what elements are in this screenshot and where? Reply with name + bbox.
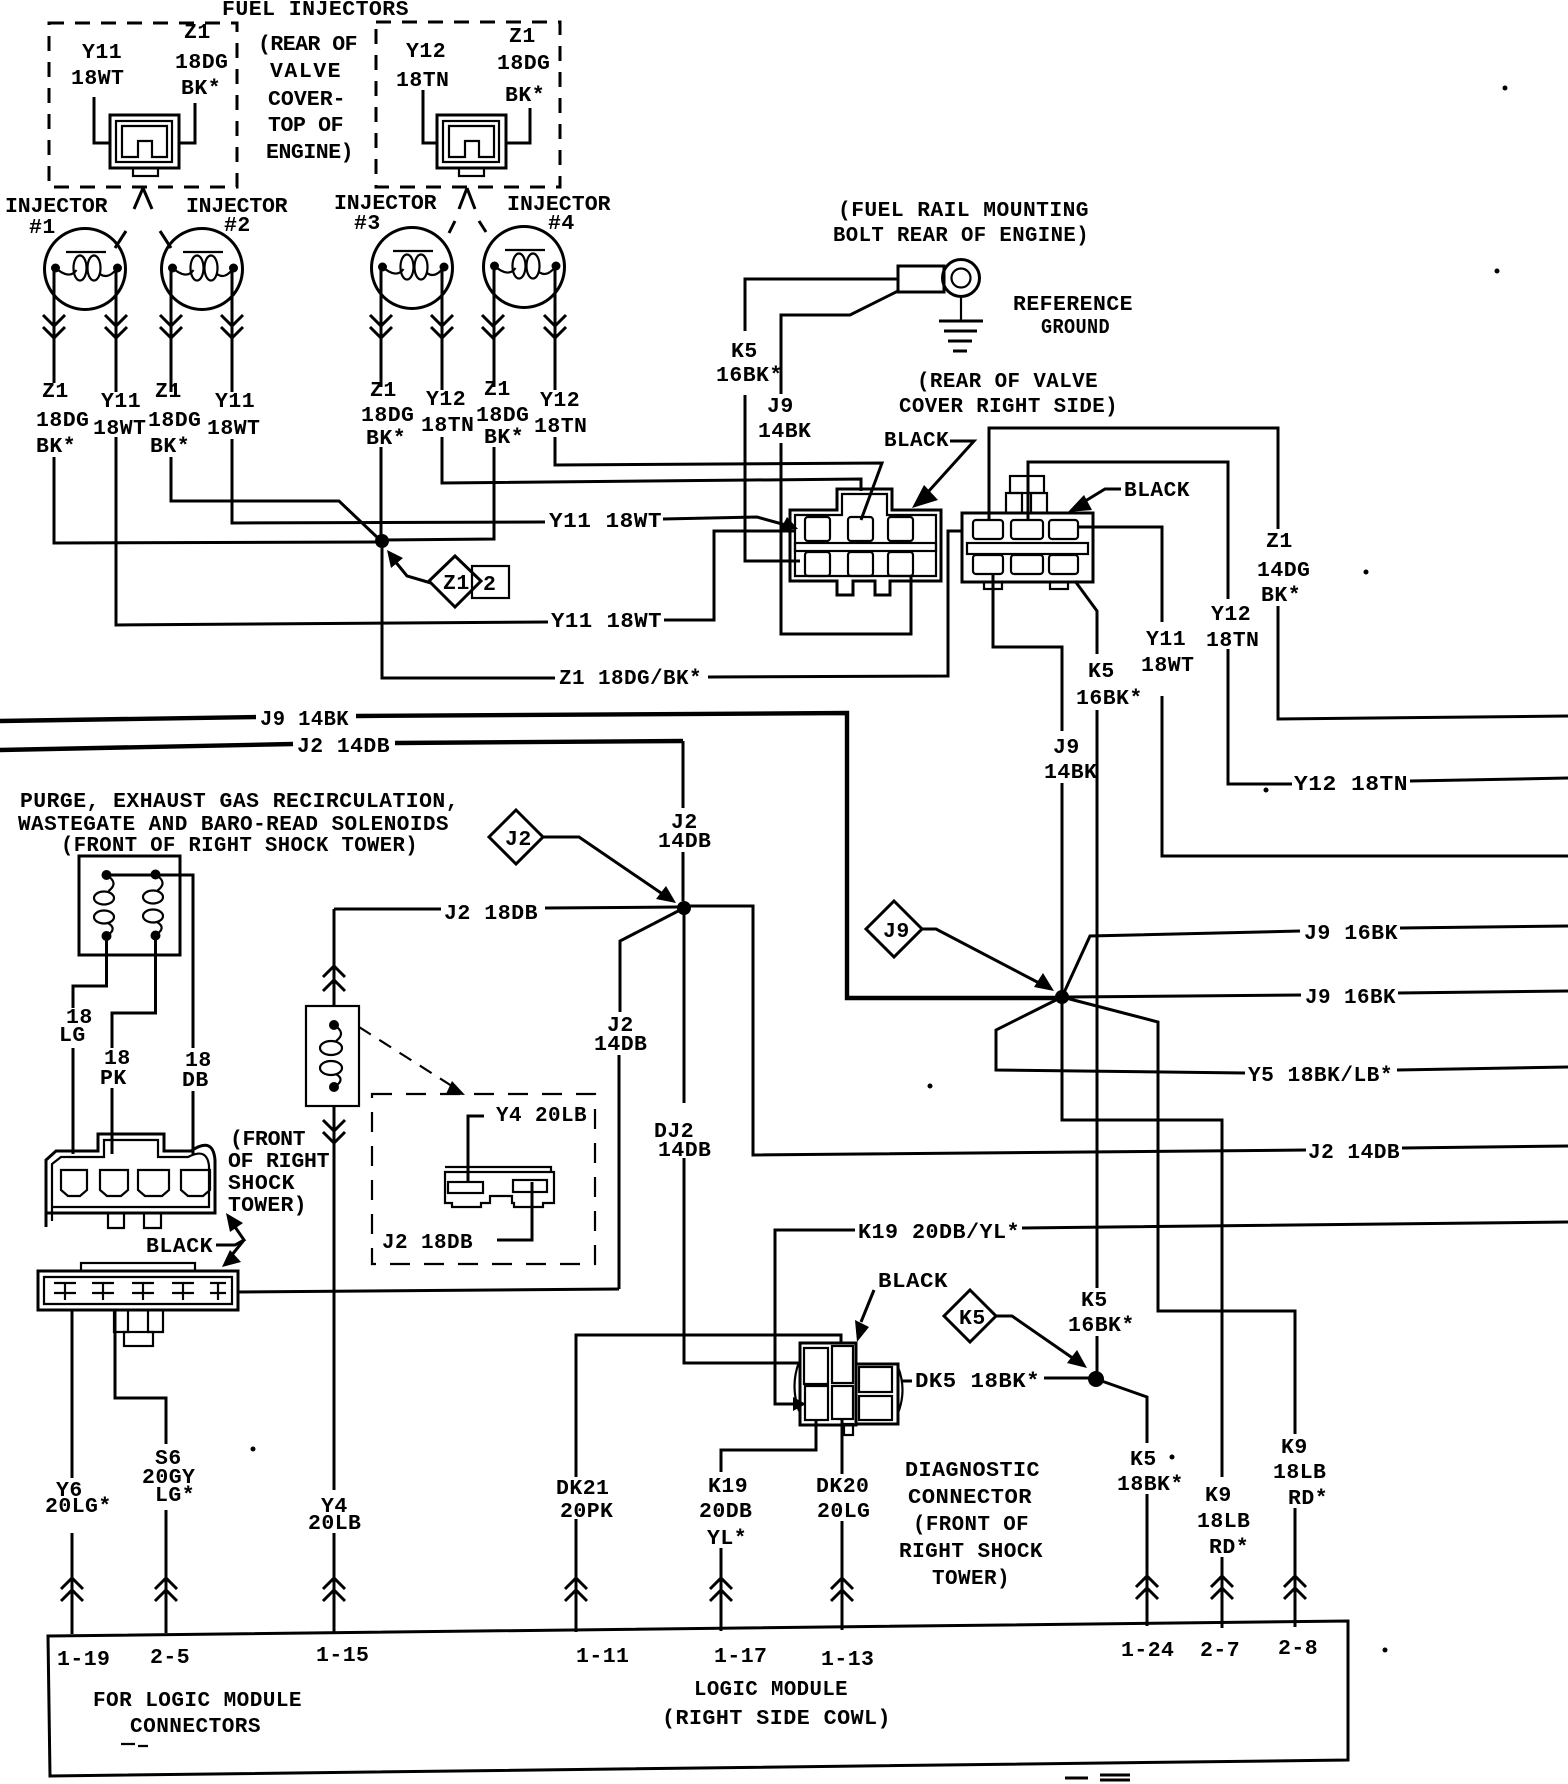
svg-text:20PK: 20PK: [560, 1500, 613, 1524]
wire 18 PK: [112, 936, 156, 1155]
chevron marks on injector wires: [43, 315, 566, 338]
svg-text:TOWER): TOWER): [932, 1567, 1010, 1591]
connector 4-cavity solenoid (front of right shock tower): [46, 1134, 215, 1228]
svg-text:DK20: DK20: [816, 1475, 869, 1499]
wire Z1 injector 2: [171, 268, 380, 540]
svg-text:CONNECTOR: CONNECTOR: [908, 1486, 1032, 1510]
wire J2 18DB from Y4 branch to J2 junction: [334, 907, 678, 909]
svg-text:18WT: 18WT: [71, 67, 124, 91]
svg-text:LOGIC MODULE: LOGIC MODULE: [694, 1678, 848, 1702]
svg-text:14DB: 14DB: [594, 1033, 647, 1057]
wire J9 14BK from right connector to J9 junction: [993, 574, 1062, 997]
svg-text:18DG: 18DG: [361, 404, 414, 428]
svg-text:14DB: 14DB: [658, 1139, 711, 1163]
wire Y6 20LG* to module 1-19: [71, 1310, 74, 1634]
svg-text:J2 14DB: J2 14DB: [1308, 1141, 1400, 1165]
node Z1 splice junction: [375, 534, 389, 548]
svg-text:DK5 18BK*: DK5 18BK*: [915, 1370, 1040, 1394]
svg-text:16BK*: 16BK*: [1068, 1314, 1135, 1338]
svg-text:BK*: BK*: [366, 427, 406, 451]
svg-text:18DG: 18DG: [148, 409, 201, 433]
svg-text:1-24: 1-24: [1121, 1639, 1174, 1663]
wire K19 20DB/YL* line: [775, 1222, 1568, 1404]
svg-text:Z1: Z1: [484, 378, 511, 402]
svg-text:14BK: 14BK: [758, 420, 811, 444]
svg-text:BOLT REAR OF ENGINE): BOLT REAR OF ENGINE): [833, 224, 1089, 248]
svg-text:18DG: 18DG: [497, 52, 550, 76]
svg-text:(FRONT OF: (FRONT OF: [913, 1513, 1029, 1537]
svg-text:Z1: Z1: [370, 379, 397, 403]
ring terminal at fuel rail bolt: [898, 266, 944, 292]
arrow from Z1 diamond to junction: [394, 560, 431, 583]
svg-text:Y12: Y12: [406, 40, 446, 64]
svg-text:K5: K5: [1130, 1448, 1157, 1472]
svg-text:BLACK: BLACK: [884, 429, 949, 453]
svg-text:2: 2: [483, 573, 496, 597]
svg-text:Y12: Y12: [1211, 603, 1251, 627]
wire Y11 injector 2 (first Y11 18WT): [232, 268, 793, 527]
wire J9 16BK lower from junction to right edge: [1068, 991, 1568, 997]
svg-text:18TN: 18TN: [1206, 629, 1259, 653]
wire K5 16BK* from right connector to K5 junction: [1075, 581, 1097, 1372]
svg-text:PURGE, EXHAUST GAS RECIRCULATI: PURGE, EXHAUST GAS RECIRCULATION,: [20, 790, 459, 814]
wire Z1 injector 1: [54, 268, 378, 543]
svg-text:BLACK: BLACK: [878, 1270, 948, 1294]
wire Y11 18WT from right connector to right edge: [1079, 527, 1568, 856]
svg-text:(RIGHT SIDE COWL): (RIGHT SIDE COWL): [662, 1707, 891, 1731]
svg-text:BK*: BK*: [150, 435, 190, 459]
svg-text:1-17: 1-17: [714, 1645, 767, 1669]
connector symbol top box 1: [110, 115, 179, 168]
svg-text:K5: K5: [731, 340, 758, 364]
svg-text:#4: #4: [548, 212, 575, 236]
svg-text:20LB: 20LB: [308, 1512, 361, 1536]
svg-text:14BK: 14BK: [1044, 761, 1097, 785]
svg-text:BLACK: BLACK: [146, 1235, 213, 1259]
svg-text:FOR LOGIC MODULE: FOR LOGIC MODULE: [93, 1689, 302, 1713]
svg-text:COVER-: COVER-: [268, 88, 346, 112]
svg-text:J9 16BK: J9 16BK: [1304, 922, 1398, 946]
wire Z1 18DG/BK* from junction to right connector: [382, 531, 962, 678]
svg-text:K9: K9: [1205, 1484, 1232, 1508]
svg-text:J9: J9: [767, 395, 794, 419]
svg-text:J2 18DB: J2 18DB: [444, 902, 538, 926]
wire DK21 20PK to module 1-11: [576, 1335, 841, 1632]
arrow from K5 diamond to junction: [996, 1316, 1074, 1359]
svg-text:INJECTOR: INJECTOR: [5, 195, 108, 219]
svg-text:DB: DB: [182, 1069, 209, 1093]
svg-text:REFERENCE: REFERENCE: [1013, 293, 1133, 317]
svg-text:14DG: 14DG: [1257, 559, 1310, 583]
caret legs connector 1 to injectors 1-2: [115, 188, 143, 248]
svg-text:K5: K5: [1081, 1289, 1108, 1313]
svg-text:Z1: Z1: [184, 21, 211, 45]
svg-text:2-7: 2-7: [1200, 1639, 1240, 1663]
svg-text:18TN: 18TN: [534, 415, 587, 439]
svg-text:Y4 20LB: Y4 20LB: [496, 1104, 587, 1128]
svg-text:Y11: Y11: [1146, 628, 1186, 652]
wire Y4 inside detail box: [468, 1116, 484, 1181]
svg-text:Y12: Y12: [426, 388, 466, 412]
arrowhead K19 into diagnostic connector: [793, 1397, 806, 1411]
svg-text:Y12 18TN: Y12 18TN: [1294, 773, 1408, 797]
svg-text:VALVE: VALVE: [270, 60, 341, 84]
svg-text:FUEL INJECTORS: FUEL INJECTORS: [222, 0, 409, 22]
connector black 6-pin right (mating): [962, 476, 1093, 589]
wire J2 14DB from junction to lower connector: [619, 908, 684, 1289]
svg-text:Z1: Z1: [42, 380, 69, 404]
wire Y4 20LB / J2 18DB branch: [333, 909, 336, 1632]
wire J9 16BK upper from junction to right edge: [1062, 926, 1568, 997]
dashed box fuel injector connector 3-4: [376, 22, 560, 187]
svg-text:1-11: 1-11: [576, 1645, 629, 1669]
svg-text:1-13: 1-13: [821, 1648, 874, 1672]
svg-text:Z1: Z1: [155, 380, 182, 404]
chevron down below coil box: [323, 1120, 345, 1143]
svg-text:INJECTOR: INJECTOR: [334, 192, 437, 216]
wire Y5 18BK/LB* from junction area to right edge: [996, 997, 1568, 1073]
svg-text:Y5 18BK/LB*: Y5 18BK/LB*: [1248, 1064, 1393, 1088]
wire K9 18LB RD* to module 2-8: [1062, 997, 1295, 1627]
dashed detail box Y4 connector: [372, 1094, 595, 1264]
svg-text:18WT: 18WT: [207, 417, 260, 441]
wire 18 DB: [156, 875, 194, 1154]
svg-text:ENGINE): ENGINE): [266, 141, 354, 165]
solenoids box with two coils: [79, 856, 180, 955]
injector 3 coil: [372, 228, 453, 309]
svg-text:BK*: BK*: [36, 435, 76, 459]
svg-text:Y11 18WT: Y11 18WT: [551, 610, 662, 634]
wire DK5 18BK* from diagnostic connector to K5 junction: [901, 1378, 1090, 1381]
wire J2 14DB long line: [0, 741, 683, 750]
wire Z1 injector 4: [382, 266, 494, 540]
svg-text:18WT: 18WT: [1141, 654, 1194, 678]
wire Y11 injector 1 (second Y11 18WT): [116, 268, 795, 625]
wire Z1 to connector 2: [506, 108, 530, 143]
svg-text:BK*: BK*: [484, 426, 524, 450]
svg-text:1-15: 1-15: [316, 1644, 369, 1668]
wire J2 18DB inside detail box: [497, 1182, 532, 1240]
splice symbol J2 diamond: [489, 810, 543, 864]
dashed box fuel injector connector 1-2: [49, 23, 237, 187]
wire link coil tops: [107, 874, 156, 877]
svg-text:Z1: Z1: [1266, 530, 1293, 554]
svg-text:#2: #2: [224, 214, 251, 238]
svg-text:TOWER): TOWER): [228, 1194, 307, 1218]
svg-text:16BK*: 16BK*: [716, 364, 783, 388]
wire K5 18BK* from junction to module 1-24: [1096, 1379, 1147, 1626]
splice symbol J9 diamond: [866, 901, 922, 957]
svg-text:18LB: 18LB: [1273, 1461, 1326, 1485]
scan artifacts: [121, 1744, 148, 1746]
svg-text:DK21: DK21: [556, 1477, 609, 1501]
arrowhead Y11 into connector: [780, 517, 798, 530]
svg-text:Y11: Y11: [101, 390, 141, 414]
svg-text:DIAGNOSTIC: DIAGNOSTIC: [905, 1459, 1040, 1483]
svg-text:OF RIGHT: OF RIGHT: [228, 1150, 330, 1174]
svg-text:Y11: Y11: [215, 390, 255, 414]
svg-text:J9 14BK: J9 14BK: [260, 708, 349, 732]
injector 4 coil: [484, 227, 565, 308]
svg-text:BK*: BK*: [505, 84, 545, 108]
svg-text:K5: K5: [1088, 660, 1115, 684]
svg-text:Y12: Y12: [540, 389, 580, 413]
wire from lower connector to J2 14DB vertical: [238, 1289, 619, 1292]
svg-text:CONNECTORS: CONNECTORS: [130, 1715, 261, 1739]
chevrons at logic module entries: [61, 1576, 1306, 1601]
svg-text:Z1 18DG/BK*: Z1 18DG/BK*: [559, 667, 702, 691]
svg-text:BK*: BK*: [181, 77, 221, 101]
dashed arrow from coil box to detail box: [359, 1027, 455, 1088]
svg-text:20DB: 20DB: [699, 1500, 752, 1524]
connector black 6-pin left (rear of valve cover): [790, 489, 941, 595]
svg-text:J2: J2: [505, 828, 532, 852]
svg-text:Z1: Z1: [509, 25, 536, 49]
svg-text:J9: J9: [883, 920, 910, 944]
svg-text:TOP OF: TOP OF: [268, 114, 344, 138]
svg-text:YL*: YL*: [707, 1527, 747, 1551]
wire DJ2 14DB from junction to diagnostic connector: [684, 908, 799, 1363]
svg-text:K19: K19: [708, 1475, 748, 1499]
wire K5 16BK* from bolt to left connector: [745, 279, 898, 561]
wire S6 20GY LG* to module 2-5: [115, 1310, 166, 1633]
svg-text:#3: #3: [354, 212, 381, 236]
svg-text:J9: J9: [1053, 736, 1080, 760]
svg-text:LG: LG: [59, 1024, 86, 1048]
svg-text:GROUND: GROUND: [1041, 316, 1110, 340]
wire J9 14BK from bolt to left connector: [781, 291, 911, 634]
wire J9 14BK long line: [0, 713, 1056, 998]
svg-text:2-8: 2-8: [1278, 1637, 1318, 1661]
svg-text:RD*: RD*: [1209, 1536, 1249, 1560]
wire Y12 injector 3: [442, 267, 861, 491]
ground REFERENCE GROUND: [960, 297, 962, 321]
svg-text:(FUEL RAIL MOUNTING: (FUEL RAIL MOUNTING: [838, 199, 1089, 223]
wire J2 14DB from junction to right edge: [684, 906, 1568, 1155]
wire Y12 injector 4: [555, 266, 882, 520]
svg-text:2-5: 2-5: [150, 1646, 190, 1670]
wire 18 LG: [73, 936, 107, 1154]
svg-text:LG*: LG*: [155, 1484, 195, 1508]
logic module box: [48, 1621, 1348, 1776]
svg-text:SHOCK: SHOCK: [228, 1172, 295, 1196]
wire DK20 20LG to module 1-13: [841, 1419, 844, 1630]
svg-text:RD*: RD*: [1288, 1487, 1328, 1511]
coil right: [143, 870, 163, 941]
svg-text:1-19: 1-19: [57, 1648, 110, 1672]
splice symbol Z1 diamond with code 2: [429, 556, 481, 607]
svg-text:RIGHT SHOCK: RIGHT SHOCK: [899, 1540, 1043, 1564]
svg-text:18BK*: 18BK*: [1117, 1473, 1184, 1497]
connector symbol top box 2: [437, 115, 506, 168]
node J2 splice junction: [677, 901, 691, 915]
wire Z1 injector 3: [380, 267, 383, 541]
diagnostic connector body: [795, 1343, 903, 1435]
svg-text:18TN: 18TN: [396, 69, 449, 93]
wire Z1 14DG BK* from right connector to right edge: [989, 428, 1568, 719]
svg-text:14DB: 14DB: [658, 830, 711, 854]
wire Y12 18TN from right connector to right edge: [1028, 462, 1568, 784]
injector 1 coil: [45, 229, 126, 310]
svg-text:K19 20DB/YL*: K19 20DB/YL*: [858, 1221, 1020, 1245]
splice symbol K5 diamond: [944, 1290, 996, 1342]
svg-text:COVER RIGHT SIDE): COVER RIGHT SIDE): [899, 395, 1118, 419]
connector 5-terminal (mating, lower): [38, 1263, 238, 1346]
svg-text:K5: K5: [959, 1307, 986, 1331]
injector 2 coil: [162, 229, 243, 310]
svg-text:18TN: 18TN: [421, 414, 474, 438]
wire Y11 to connector 1: [94, 97, 110, 143]
svg-text:Y11: Y11: [82, 41, 122, 65]
svg-text:20LG*: 20LG*: [45, 1495, 112, 1519]
svg-text:(REAR OF VALVE: (REAR OF VALVE: [917, 370, 1098, 394]
arrow from J2 diamond to junction: [543, 837, 664, 895]
chevron up on J2 18DB branch: [323, 966, 345, 991]
svg-text:J2 18DB: J2 18DB: [382, 1231, 473, 1255]
svg-text:18LB: 18LB: [1197, 1510, 1250, 1534]
svg-text:(FRONT: (FRONT: [230, 1128, 306, 1152]
wire K19 20DB YL* to module 1-17: [721, 1420, 816, 1631]
connector symbol inside detail box: [445, 1167, 554, 1207]
wire Y12 to connector 2: [423, 90, 437, 143]
svg-text:18WT: 18WT: [93, 417, 146, 441]
svg-text:(REAR OF: (REAR OF: [258, 33, 358, 57]
svg-text:J2 14DB: J2 14DB: [297, 735, 390, 759]
wire J2 14DB from long line down to junction: [682, 741, 685, 901]
svg-text:18DG: 18DG: [36, 409, 89, 433]
svg-text:Y11 18WT: Y11 18WT: [549, 510, 662, 534]
svg-text:18DG: 18DG: [476, 404, 529, 428]
wire Z1 to connector 1: [179, 103, 195, 143]
svg-text:BK*: BK*: [1261, 584, 1301, 608]
caret legs connector 2 to injectors 3-4: [449, 188, 467, 233]
node J9 splice junction: [1055, 990, 1069, 1004]
arrow from J9 diamond to junction: [922, 929, 1041, 984]
svg-text:J9 16BK: J9 16BK: [1305, 986, 1396, 1010]
svg-text:PK: PK: [100, 1067, 127, 1091]
svg-text:Z1: Z1: [443, 572, 470, 596]
svg-text:K9: K9: [1281, 1436, 1308, 1460]
node K5 splice junction: [1088, 1371, 1104, 1387]
wire K9 18LB RD* to module 2-7: [1062, 997, 1222, 1628]
svg-text:#1: #1: [29, 216, 56, 240]
coil box on Y4 branch: [306, 1006, 359, 1106]
svg-text:20LG: 20LG: [817, 1500, 870, 1524]
svg-text:16BK*: 16BK*: [1076, 687, 1143, 711]
svg-text:18DG: 18DG: [175, 51, 228, 75]
svg-text:BLACK: BLACK: [1124, 479, 1190, 503]
coil left: [94, 870, 114, 941]
svg-text:(FRONT OF RIGHT SHOCK TOWER): (FRONT OF RIGHT SHOCK TOWER): [61, 834, 418, 858]
